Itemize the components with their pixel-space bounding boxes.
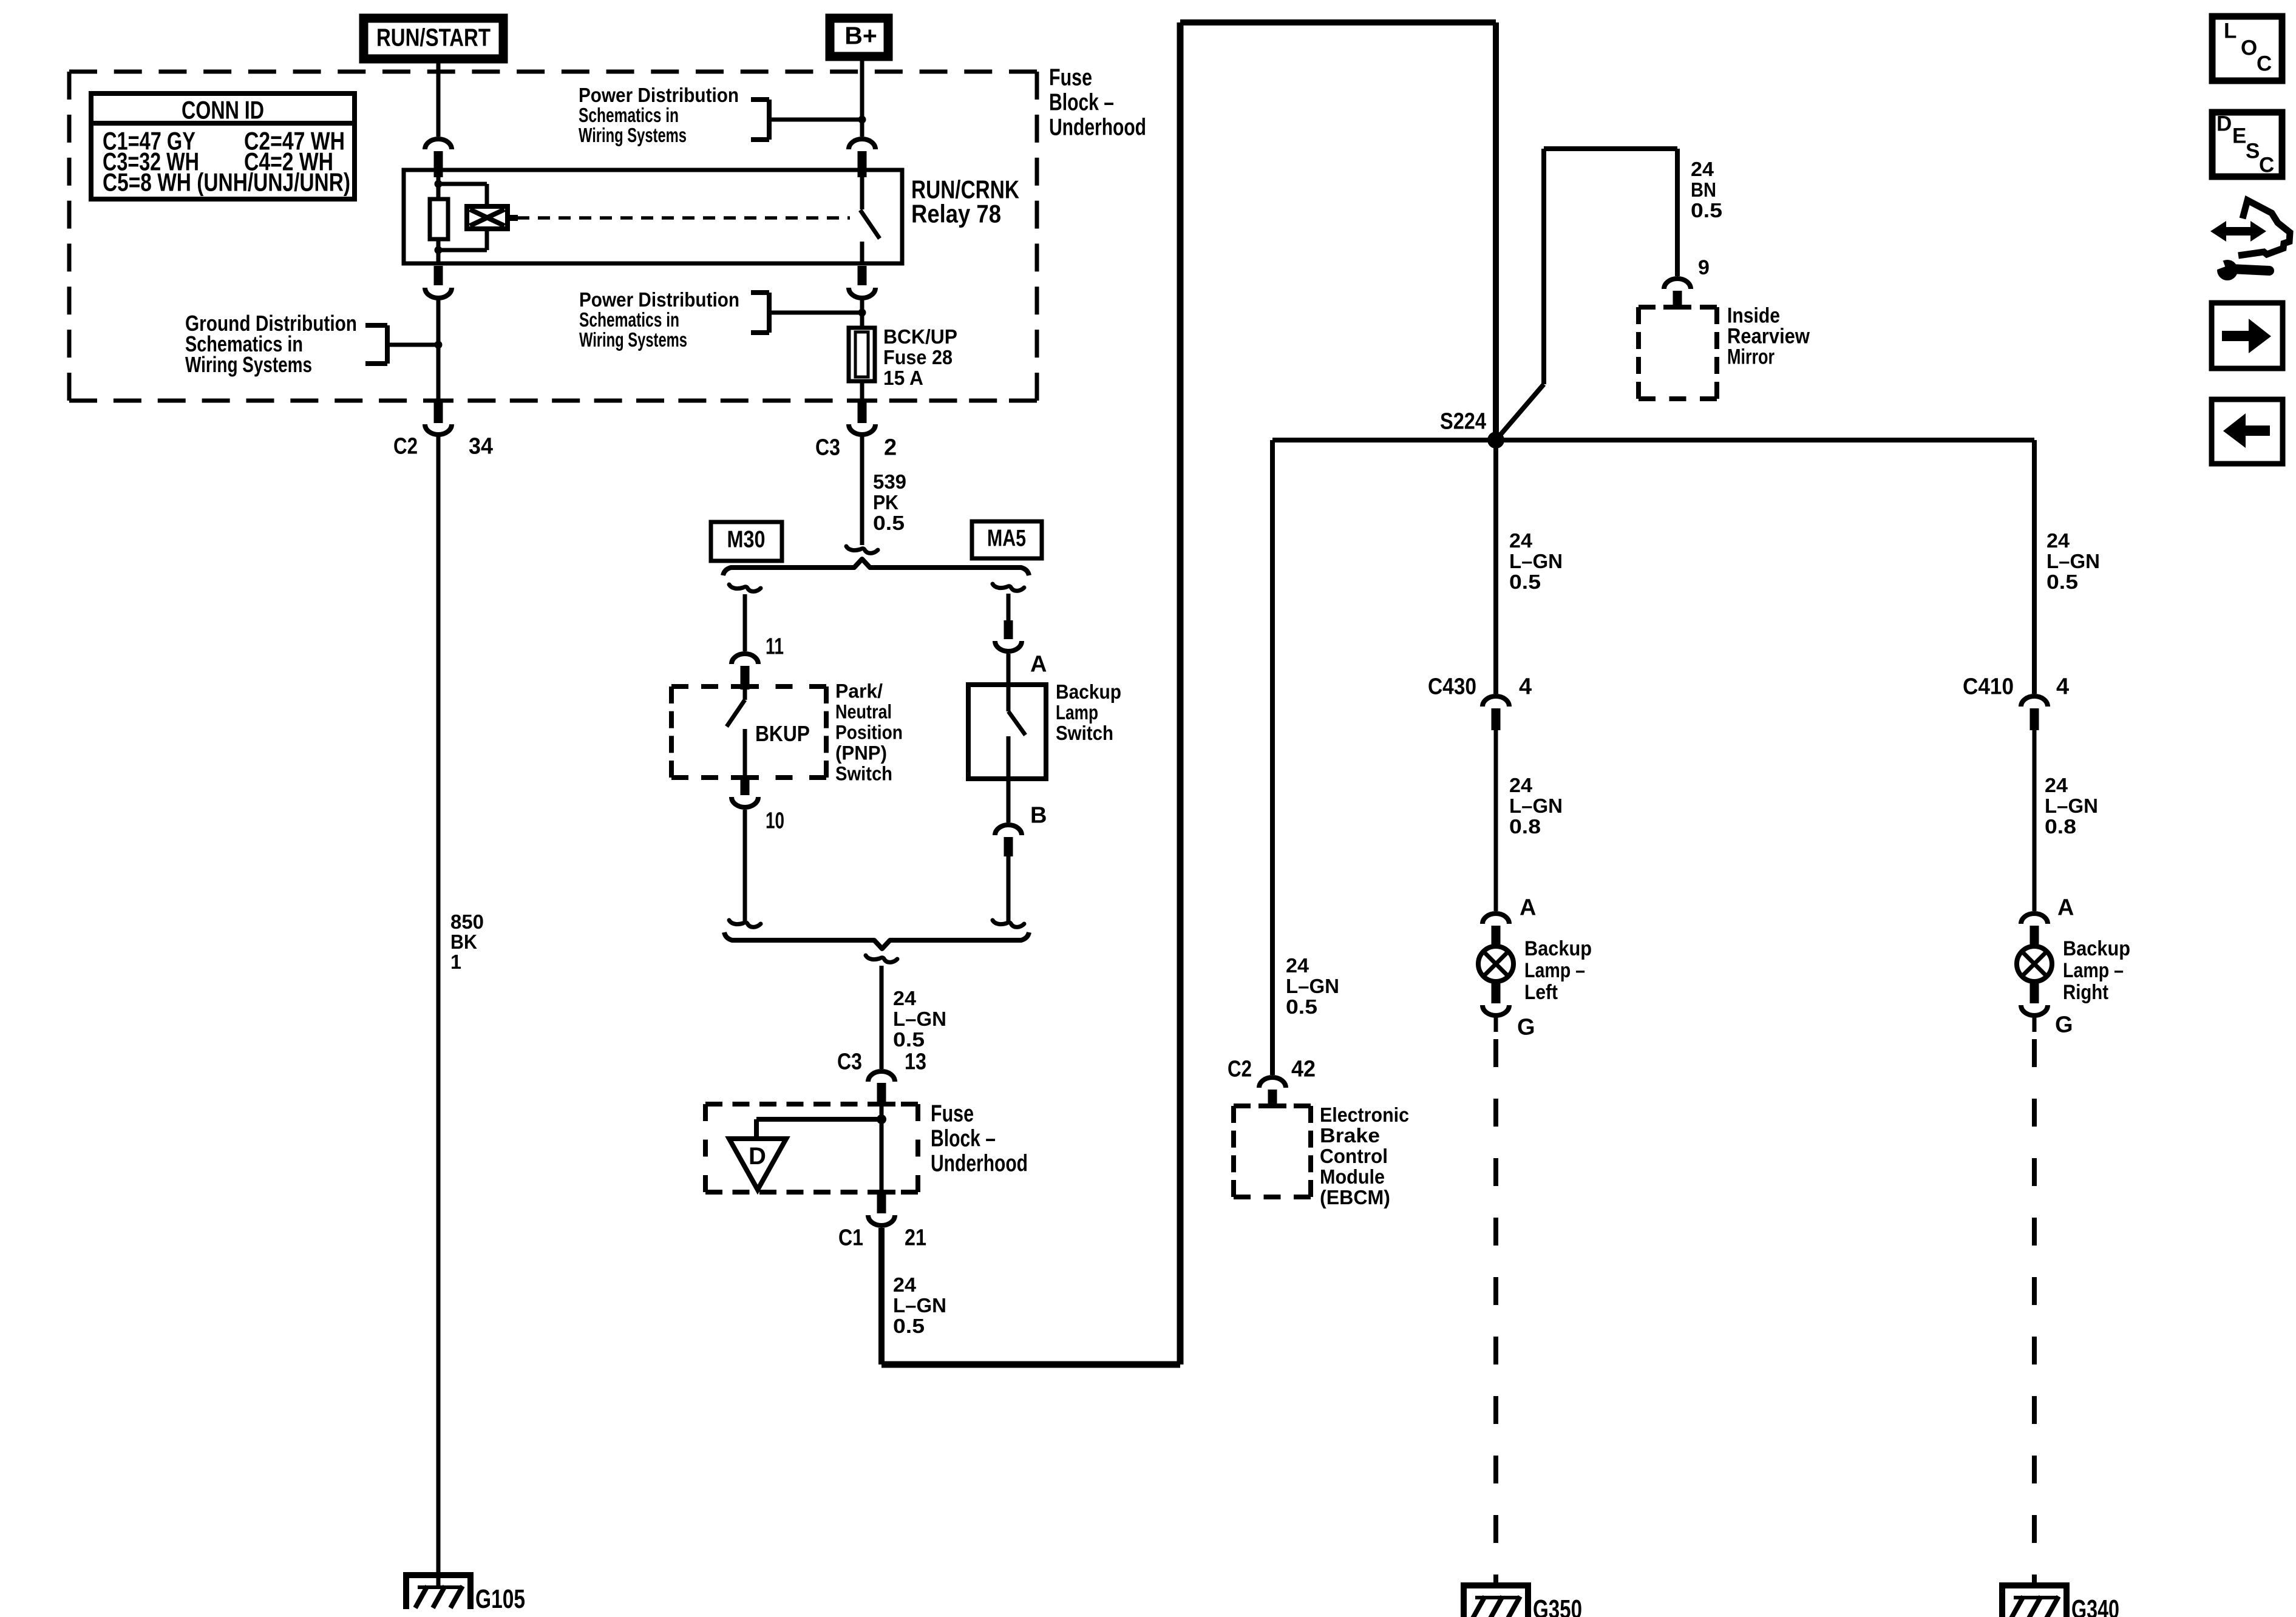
svg-text:Lamp: Lamp — [1056, 701, 1098, 724]
svg-text:24: 24 — [893, 987, 917, 1009]
svg-text:21: 21 — [905, 1225, 926, 1251]
svg-text:Right: Right — [2063, 981, 2108, 1004]
svg-text:0.8: 0.8 — [2045, 815, 2076, 838]
svg-text:42: 42 — [1291, 1057, 1316, 1082]
svg-text:C430: C430 — [1428, 674, 1476, 700]
svg-text:L: L — [2224, 19, 2237, 43]
svg-text:C1: C1 — [838, 1225, 863, 1251]
svg-text:2: 2 — [884, 435, 897, 461]
svg-text:0.5: 0.5 — [1509, 571, 1541, 593]
svg-text:L–GN: L–GN — [1509, 550, 1563, 572]
svg-text:CONN ID: CONN ID — [182, 95, 264, 124]
svg-text:Wiring Systems: Wiring Systems — [579, 328, 687, 351]
svg-text:Power Distribution: Power Distribution — [579, 84, 739, 106]
svg-text:Electronic: Electronic — [1320, 1103, 1409, 1126]
svg-text:34: 34 — [469, 434, 493, 459]
svg-text:0.5: 0.5 — [2046, 571, 2078, 593]
svg-text:A: A — [1520, 895, 1536, 921]
svg-text:9: 9 — [1698, 256, 1710, 279]
svg-text:Fuse 28: Fuse 28 — [883, 346, 953, 368]
svg-text:C410: C410 — [1963, 674, 2014, 700]
svg-text:0.5: 0.5 — [1691, 199, 1722, 222]
svg-text:Underhood: Underhood — [1049, 114, 1146, 140]
svg-text:Block –: Block – — [1049, 89, 1114, 115]
svg-text:L–GN: L–GN — [1509, 795, 1563, 817]
svg-text:Schematics in: Schematics in — [579, 308, 679, 331]
svg-text:G: G — [2055, 1012, 2073, 1038]
svg-text:L–GN: L–GN — [893, 1008, 946, 1030]
svg-text:L–GN: L–GN — [893, 1294, 946, 1317]
svg-text:PK: PK — [873, 491, 898, 514]
svg-text:Schematics in: Schematics in — [579, 104, 679, 126]
svg-text:Position: Position — [835, 721, 903, 743]
svg-text:G340: G340 — [2071, 1595, 2119, 1617]
svg-text:Switch: Switch — [835, 762, 892, 784]
svg-text:Lamp –: Lamp – — [2063, 959, 2124, 982]
svg-text:BKUP: BKUP — [755, 721, 810, 746]
svg-text:O: O — [2241, 36, 2257, 60]
svg-text:C2: C2 — [393, 434, 418, 459]
svg-text:A: A — [1030, 652, 1047, 677]
svg-text:C3: C3 — [815, 435, 840, 461]
svg-text:Fuse: Fuse — [931, 1100, 974, 1127]
svg-text:D: D — [2216, 112, 2232, 136]
svg-text:Mirror: Mirror — [1727, 345, 1775, 369]
svg-text:Fuse: Fuse — [1049, 64, 1092, 90]
svg-text:0.5: 0.5 — [873, 512, 905, 534]
svg-text:0.8: 0.8 — [1509, 815, 1541, 838]
svg-text:L–GN: L–GN — [2045, 795, 2098, 817]
svg-text:Module: Module — [1320, 1165, 1385, 1188]
svg-text:S224: S224 — [1440, 409, 1486, 435]
svg-text:Park/: Park/ — [835, 680, 883, 702]
svg-text:Backup: Backup — [1056, 680, 1121, 703]
svg-text:G350: G350 — [1533, 1595, 1582, 1617]
svg-text:1: 1 — [450, 951, 461, 973]
svg-text:24: 24 — [1509, 529, 1533, 552]
svg-text:24: 24 — [1286, 954, 1309, 977]
svg-text:G: G — [1517, 1015, 1535, 1040]
svg-text:15 A: 15 A — [883, 367, 923, 389]
svg-text:24: 24 — [1509, 774, 1533, 796]
svg-text:539: 539 — [873, 470, 906, 493]
svg-text:Block –: Block – — [931, 1125, 996, 1151]
svg-text:Switch: Switch — [1056, 722, 1113, 744]
svg-text:Wiring Systems: Wiring Systems — [185, 352, 312, 377]
svg-text:Relay 78: Relay 78 — [911, 199, 1001, 228]
svg-text:Control: Control — [1320, 1145, 1388, 1167]
svg-text:0.5: 0.5 — [893, 1028, 925, 1051]
svg-text:C3: C3 — [837, 1049, 862, 1075]
svg-text:4: 4 — [1519, 674, 1532, 700]
svg-text:11: 11 — [766, 634, 784, 660]
svg-text:Power Distribution: Power Distribution — [579, 288, 739, 311]
svg-text:Lamp –: Lamp – — [1524, 959, 1585, 982]
svg-text:B: B — [1030, 803, 1047, 829]
svg-text:24: 24 — [2046, 529, 2070, 552]
svg-text:Backup: Backup — [2063, 937, 2130, 960]
svg-text:BK: BK — [450, 931, 477, 953]
svg-text:850: 850 — [450, 910, 484, 933]
svg-text:Neutral: Neutral — [835, 700, 892, 722]
svg-text:24: 24 — [2045, 774, 2068, 796]
svg-text:(EBCM): (EBCM) — [1320, 1186, 1390, 1209]
svg-text:10: 10 — [766, 808, 784, 834]
svg-text:(PNP): (PNP) — [835, 742, 887, 764]
svg-text:0.5: 0.5 — [893, 1315, 925, 1337]
svg-text:E: E — [2232, 124, 2246, 148]
svg-text:D: D — [749, 1143, 766, 1170]
svg-text:24: 24 — [1691, 158, 1714, 180]
svg-text:G105: G105 — [475, 1584, 525, 1614]
svg-text:BN: BN — [1691, 178, 1716, 201]
svg-text:13: 13 — [905, 1049, 926, 1075]
svg-text:Left: Left — [1524, 981, 1558, 1004]
svg-text:L–GN: L–GN — [2046, 550, 2100, 572]
svg-text:A: A — [2057, 895, 2074, 921]
svg-text:BCK/UP: BCK/UP — [883, 325, 957, 348]
svg-text:24: 24 — [893, 1273, 917, 1296]
svg-text:C: C — [2257, 52, 2272, 76]
svg-text:Brake: Brake — [1320, 1124, 1380, 1147]
svg-text:MA5: MA5 — [987, 525, 1026, 551]
svg-text:4: 4 — [2056, 674, 2069, 700]
svg-text:L–GN: L–GN — [1286, 975, 1339, 997]
svg-text:M30: M30 — [727, 526, 766, 552]
svg-text:C5=8 WH (UNH/UNJ/UNR): C5=8 WH (UNH/UNJ/UNR) — [103, 168, 350, 196]
svg-text:0.5: 0.5 — [1286, 995, 1317, 1018]
svg-text:RUN/START: RUN/START — [376, 24, 491, 52]
svg-text:B+: B+ — [844, 22, 877, 50]
svg-text:Backup: Backup — [1524, 937, 1592, 960]
svg-text:Underhood: Underhood — [931, 1150, 1028, 1176]
svg-text:Wiring Systems: Wiring Systems — [579, 124, 687, 146]
svg-text:S: S — [2246, 140, 2260, 163]
svg-text:C2: C2 — [1228, 1057, 1252, 1082]
svg-text:C: C — [2259, 154, 2274, 177]
